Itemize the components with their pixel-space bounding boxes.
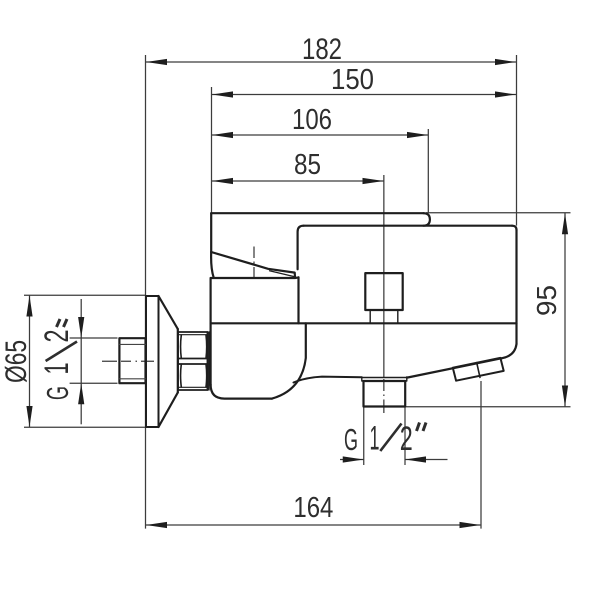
nipple thread minor lines: [119, 344, 145, 378]
G half left extension bottom: [70, 382, 118, 384]
arrowhead 85 left: [212, 178, 233, 184]
aerator divider line: [477, 363, 480, 378]
extension line x=428.3 (106 right): [427, 129, 429, 213]
arrowhead dia65 top: [26, 296, 32, 317]
outlet block G half: [364, 381, 406, 407]
arrowhead G half bottom left (points right): [343, 456, 364, 462]
dimension line 150: [212, 94, 517, 96]
dimension line 182: [146, 61, 517, 63]
aerator tilted rectangle: [453, 358, 504, 381]
body right edge: [515, 230, 517, 344]
extension / centerline x=383.85 (85 right, outlet axis): [383, 175, 385, 377]
G half bottom extension right: [404, 407, 406, 465]
arrowhead 106 right: [407, 132, 428, 138]
dimension line 106: [212, 134, 429, 136]
nut top band: [178, 334, 208, 336]
svg-text:85: 85: [294, 149, 321, 181]
arrowhead 85 right: [363, 178, 384, 184]
arrowhead 106 left: [212, 132, 233, 138]
handle plate rounded end: [424, 213, 430, 226]
dia65 dimension line: [29, 295, 31, 427]
svg-text:Ø65: Ø65: [0, 340, 33, 383]
svg-text:164: 164: [293, 492, 333, 524]
arrowhead 182 right: [495, 59, 516, 65]
arrowhead G half left top (points down): [78, 317, 84, 338]
body shoulder concave curve: [272, 323, 306, 398]
extension line x=481 (164 right, aerator axis): [480, 381, 482, 529]
svg-text:G: G: [40, 386, 75, 400]
arrowhead 150 right: [495, 91, 516, 97]
nut facet lines: [178, 359, 208, 365]
handle left edge: [210, 213, 212, 252]
extension line x=516.5 (body right): [516, 55, 518, 226]
dimension text G half bottom: slash: [380, 424, 401, 452]
arrowhead 95 top: [562, 213, 568, 234]
svg-text:1: 1: [38, 363, 76, 375]
arrowhead 164 left: [146, 522, 167, 528]
svg-text:1: 1: [370, 420, 380, 458]
body top edge: [304, 225, 512, 227]
outlet washer strip: [362, 378, 407, 382]
svg-text:95: 95: [531, 285, 562, 316]
cartridge centerline x=254: [253, 247, 255, 279]
body top right corner: [512, 226, 517, 230]
dia65 extension bottom: [24, 426, 145, 428]
extension line x=211.5 (handle left): [211, 87, 213, 213]
handle top plate: [211, 212, 423, 214]
dimension line 85: [212, 180, 384, 182]
dimension text G half bottom: double prime: [417, 423, 427, 432]
wall nipple G half thread: [119, 338, 145, 383]
extension line y=212.8 (95 top): [426, 212, 571, 214]
handle underside slant: [211, 252, 295, 277]
top block neck: [370, 310, 398, 323]
arrowhead G half bottom right (points left): [405, 456, 426, 462]
cartridge collar top: [211, 276, 299, 279]
svg-text:G: G: [344, 422, 358, 457]
arrowhead dia65 bottom: [26, 406, 32, 427]
dimension line 95: [564, 213, 566, 407]
body top left corner: [298, 226, 304, 270]
extension line y=406.7 (95 bottom): [405, 406, 570, 408]
arrowhead 95 bottom: [562, 386, 568, 407]
dimension text G left vertical: slash: [46, 342, 77, 362]
dia65 extension top: [24, 294, 145, 296]
flange cone top slant: [159, 296, 178, 329]
spout bottom under outlet to slant: [407, 358, 503, 377]
dimension line 164: [146, 524, 482, 526]
arrowhead 164 right: [460, 522, 481, 528]
washer lines at nut right: [208, 332, 210, 390]
dimension text G left vertical: double prime: [57, 319, 68, 327]
svg-text:2: 2: [400, 420, 413, 458]
cartridge collar right edge: [297, 277, 299, 323]
G half bottom dimension line: [340, 459, 448, 461]
flange cone bottom slant: [159, 393, 178, 428]
handle underside second slant: [270, 271, 295, 277]
spout right bottom corner: [503, 344, 517, 358]
svg-text:182: 182: [302, 33, 342, 66]
body bottom left corner and bottom: [211, 385, 272, 399]
svg-text:150: 150: [331, 64, 374, 96]
body left edge: [210, 279, 212, 386]
wall flange face plate: [146, 296, 159, 427]
arrowhead 182 left: [146, 59, 167, 65]
svg-text:106: 106: [292, 104, 332, 136]
arrowhead G half left bottom (points up): [78, 383, 84, 404]
nut facet verticals: [181, 335, 207, 387]
arrowhead 150 left: [212, 91, 233, 97]
nut bottom band: [178, 386, 208, 388]
G half bottom extension left: [363, 407, 365, 465]
flange cone right face: [177, 329, 179, 393]
G half left extension top: [70, 337, 118, 339]
top block (shower diverter): [365, 273, 402, 310]
handle nose curve: [211, 252, 214, 277]
connector centerline y=361.3: [102, 360, 160, 362]
body lower fillet to spout bottom: [294, 377, 362, 383]
nut outer rect: [178, 332, 208, 390]
extension line left (wall face, x=145.5): [145, 55, 147, 529]
outlet centerline dashes: [383, 379, 385, 413]
G half left dimension line: [80, 299, 82, 424]
svg-text:2: 2: [38, 330, 76, 343]
body mid parting line: [211, 322, 517, 324]
